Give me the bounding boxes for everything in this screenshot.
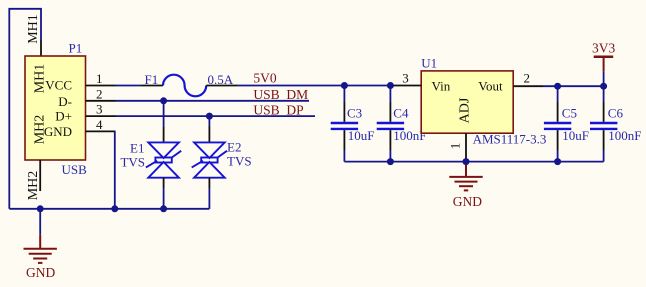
junction dots right section [341, 82, 607, 165]
capacitor C4 [389, 86, 391, 103]
capacitor C3 [343, 86, 345, 103]
regulator U1 body [421, 71, 513, 133]
svg-text:Vin: Vin [432, 79, 451, 94]
wire: E1 bottom [163, 178, 165, 188]
capacitor C6 [603, 86, 605, 102]
wire: GND pin down [114, 131, 116, 208]
svg-text:C4: C4 [393, 105, 409, 120]
wire: E2 bottom [208, 178, 210, 188]
junction dots left section [37, 97, 213, 212]
svg-text:GND: GND [44, 124, 72, 139]
svg-text:10uF: 10uF [562, 128, 589, 143]
pin 2 of U1 [513, 85, 543, 87]
wire: left loop vertical [9, 9, 41, 209]
svg-text:C5: C5 [562, 105, 577, 120]
svg-text:MH2: MH2 [26, 171, 41, 201]
svg-text:USB DM: USB DM [253, 87, 308, 102]
svg-text:C6: C6 [608, 105, 624, 120]
ground symbol (left) [24, 235, 57, 263]
svg-text:MH1: MH1 [26, 14, 41, 44]
svg-text:TVS: TVS [120, 154, 145, 169]
svg-text:TVS: TVS [227, 153, 252, 168]
wire: VCC to fuse [116, 85, 142, 87]
TVS diode E2 [192, 142, 227, 177]
pin 1 of U1 [465, 133, 467, 161]
pin 3 of U1 [390, 85, 421, 87]
pin MH1 (top pin of P1) [40, 40, 42, 56]
svg-text:VCC: VCC [45, 78, 72, 93]
svg-text:P1: P1 [69, 41, 83, 56]
wire: D- net [116, 100, 310, 102]
wire: E1 top [163, 101, 165, 127]
pin 1 of P1 [86, 85, 116, 87]
wire: E2 top [208, 116, 210, 126]
component P1 body [25, 56, 86, 160]
wire: Vout net [543, 85, 604, 87]
wire: 3V3 stub [603, 72, 605, 86]
svg-text:E2: E2 [227, 139, 241, 154]
wire: GND stub [39, 209, 41, 235]
svg-text:AMS1117-3.3: AMS1117-3.3 [473, 131, 547, 146]
pin 2 of P1 [86, 100, 116, 102]
svg-text:3: 3 [96, 102, 103, 117]
svg-text:Vout: Vout [478, 79, 503, 94]
pin 3 of P1 [86, 115, 116, 117]
svg-text:1: 1 [96, 71, 103, 86]
ground symbol (U1) [449, 162, 482, 191]
svg-text:100nF: 100nF [608, 128, 641, 143]
wire: bottom-right GND rail [344, 161, 603, 163]
wire: D+ net [116, 115, 316, 117]
capacitor C5 [557, 86, 559, 102]
svg-text:0.5A: 0.5A [208, 72, 234, 87]
svg-text:3V3: 3V3 [592, 40, 615, 55]
svg-text:GND: GND [26, 265, 55, 280]
svg-text:10uF: 10uF [348, 128, 375, 143]
svg-text:D+: D+ [55, 109, 72, 124]
TVS diode E1 [146, 142, 181, 177]
svg-text:F1: F1 [145, 72, 159, 87]
svg-text:ADJ: ADJ [458, 97, 473, 123]
svg-text:2: 2 [96, 86, 103, 101]
wire: 5V0 net to U1 [237, 85, 390, 87]
svg-text:U1: U1 [421, 56, 437, 71]
svg-text:3: 3 [402, 71, 409, 86]
svg-text:USB DP: USB DP [253, 103, 303, 118]
power symbol 3V3 [603, 58, 605, 72]
svg-text:5V0: 5V0 [253, 70, 276, 85]
svg-text:USB: USB [62, 162, 88, 177]
svg-text:D-: D- [58, 94, 72, 109]
svg-text:1: 1 [448, 143, 463, 150]
svg-text:GND: GND [453, 194, 482, 209]
pin MH2 (bottom pin of P1) [39, 160, 41, 191]
wire: bottom-left GND rail [9, 208, 209, 210]
svg-text:2: 2 [524, 71, 531, 86]
fuse F1 [141, 85, 163, 87]
svg-text:E1: E1 [130, 140, 144, 155]
svg-text:C3: C3 [347, 105, 362, 120]
pin 4 of P1 [86, 130, 116, 132]
svg-text:4: 4 [96, 117, 103, 132]
